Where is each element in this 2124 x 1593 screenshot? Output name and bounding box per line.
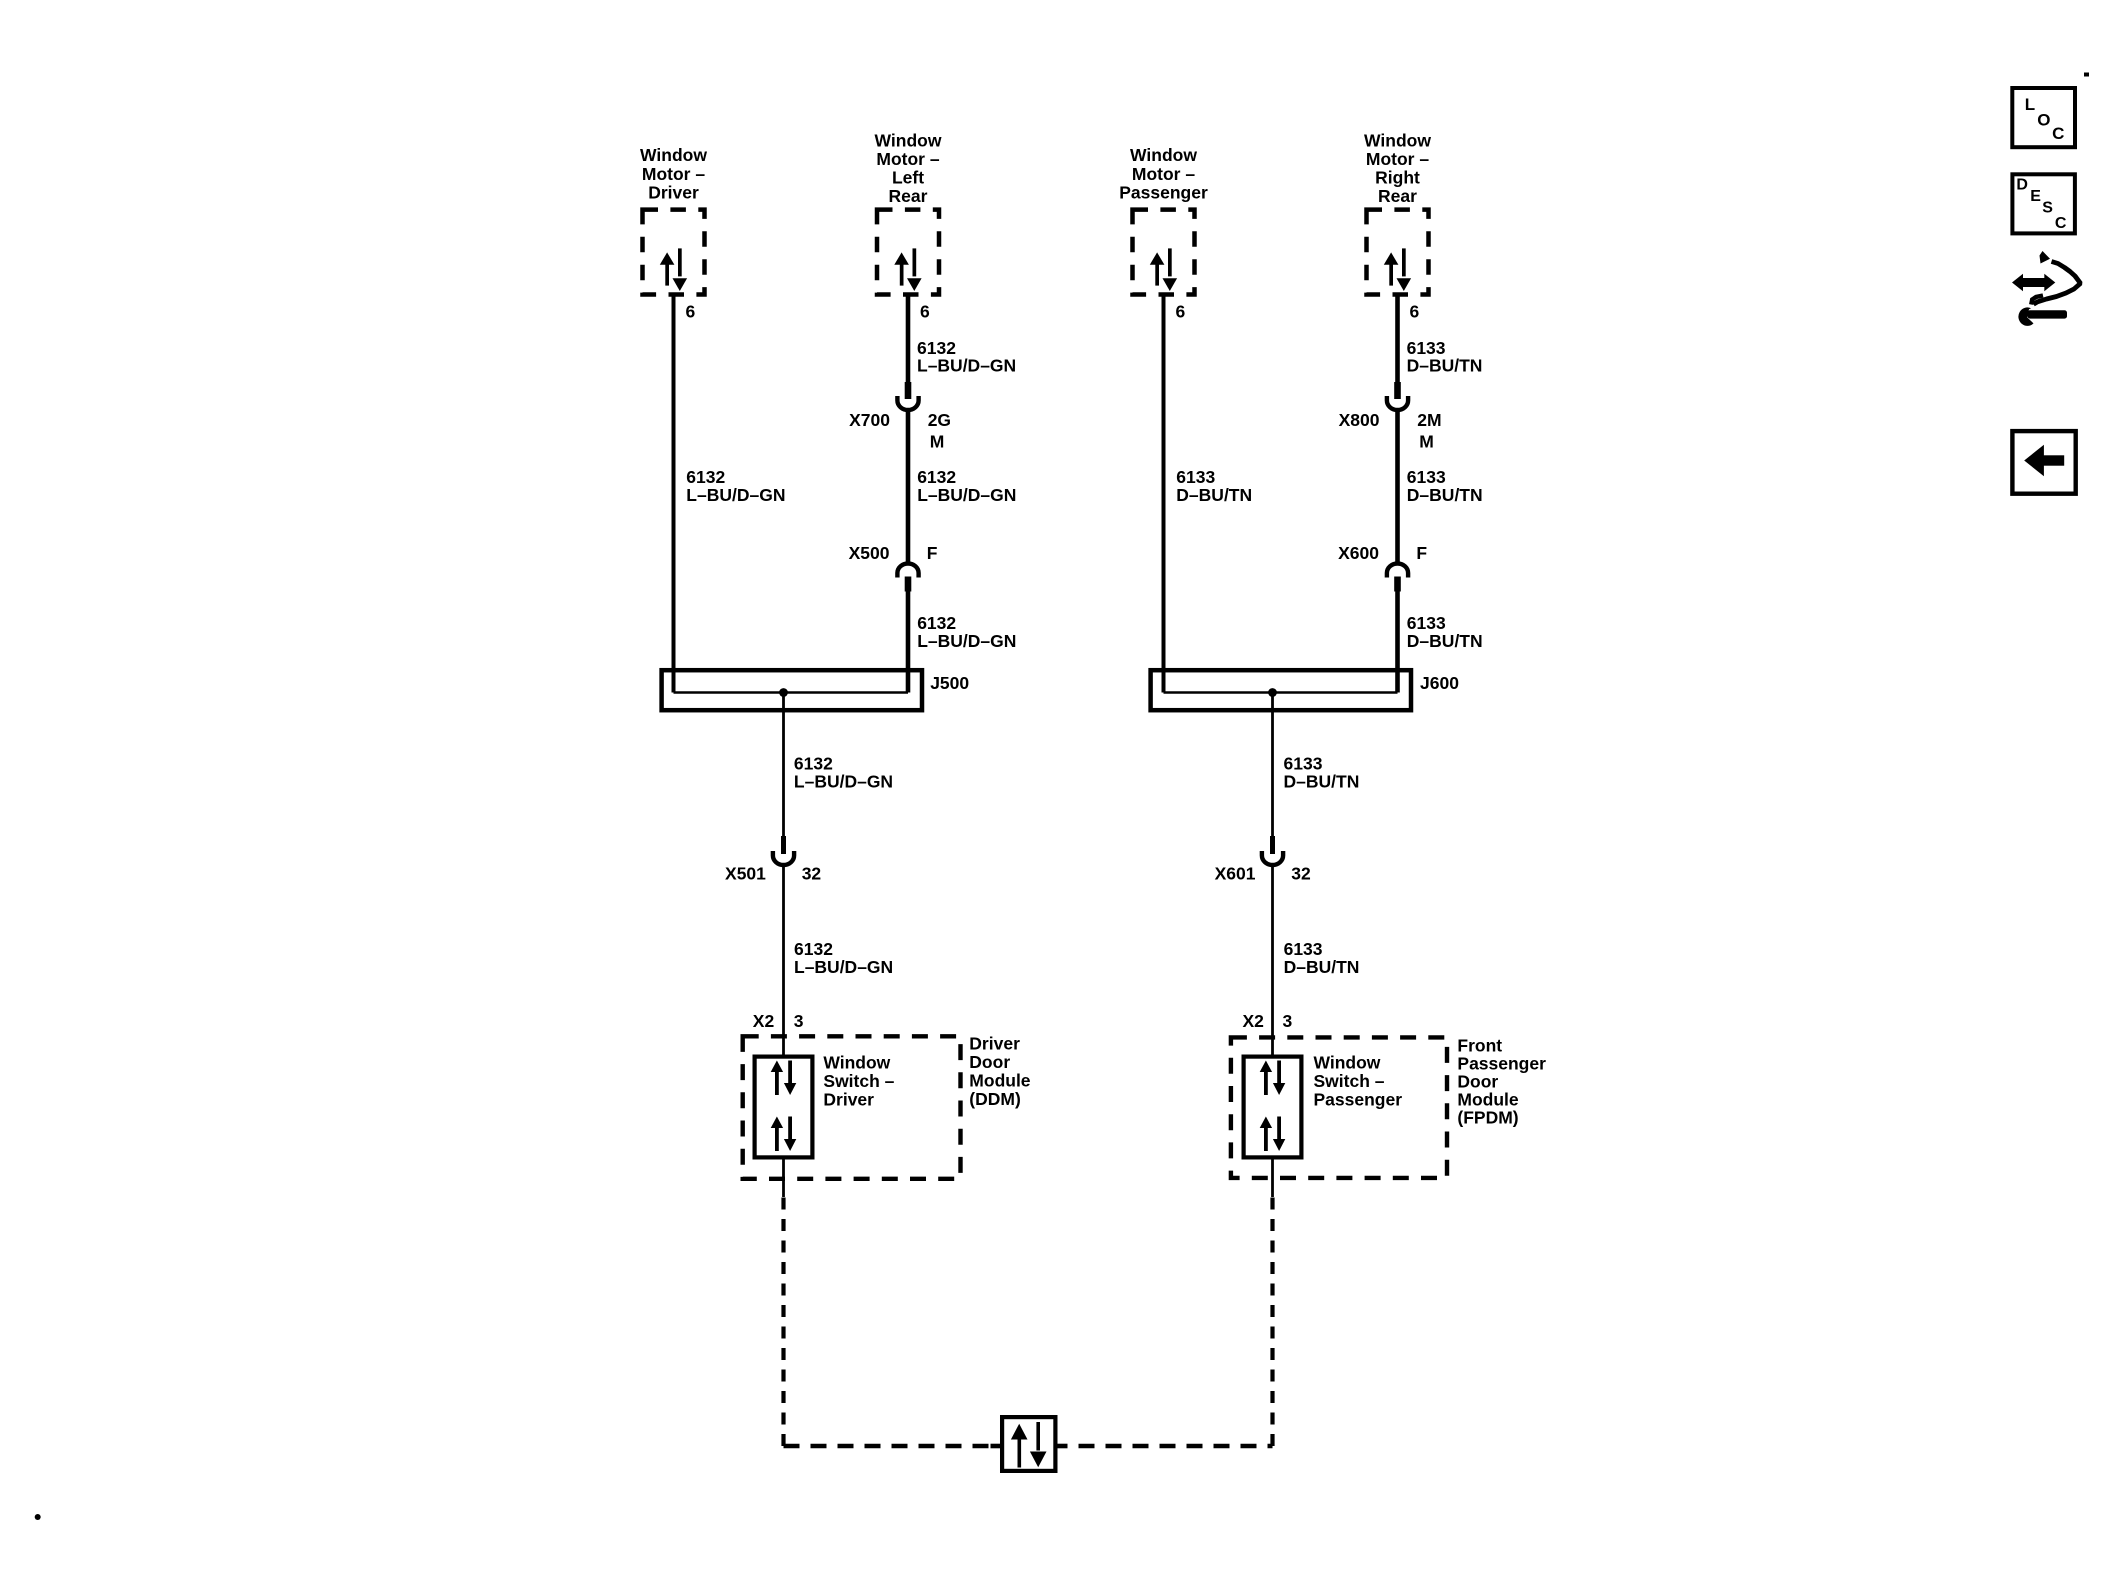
window motor right rear label [1364,131,1431,207]
FPDM label [1457,1036,1546,1128]
window motor right rear arrows [1384,248,1411,291]
wire X601 to switch [1271,865,1274,1055]
connector X601 cup [1262,851,1283,865]
window switch driver box [755,1057,813,1158]
wire passenger motor pin 6 [1162,295,1166,693]
connector X500 terminal [905,577,912,592]
wire J500 to X501 [782,693,785,838]
wire right rear motor pin 6 [1395,295,1400,384]
wire label 6133 below X601 [1284,939,1360,977]
svg-text:Rear: Rear [1378,186,1417,206]
DDM label [969,1034,1031,1110]
wire switch driver to dashed [782,1160,785,1198]
wire X600 to J600 [1395,591,1400,693]
svg-text:Driver: Driver [969,1034,1020,1054]
window switch driver label [823,1053,894,1110]
svg-text:D: D [2016,176,2028,193]
svg-text:Motor –: Motor – [1366,149,1429,169]
window switch passenger label [1314,1053,1403,1110]
connector X501 terminal [781,836,786,854]
LOC nav box [2012,88,2075,147]
svg-text:Passenger: Passenger [1119,182,1208,202]
splice pack J500 box [662,670,922,710]
svg-text:X501: X501 [725,864,766,884]
wire label 6132 mid [917,467,1016,505]
back arrow box [2012,431,2075,494]
window motor passenger arrows [1150,248,1177,291]
svg-text:X500: X500 [849,543,890,563]
svg-text:Window: Window [1130,145,1197,165]
wire label 6132 below J500 [794,754,893,792]
svg-text:X800: X800 [1339,410,1380,430]
svg-text:X600: X600 [1338,543,1379,563]
svg-text:L–BU/D–GN: L–BU/D–GN [917,356,1016,376]
svg-text:Passenger: Passenger [1314,1090,1403,1110]
scan artifact top right [2084,73,2089,77]
svg-text:X601: X601 [1215,864,1256,884]
dashed wire bottom left [784,1444,990,1449]
J500 internal bus [674,691,909,694]
svg-text:32: 32 [802,864,822,884]
svg-text:X700: X700 [849,410,890,430]
svg-text:L–BU/D–GN: L–BU/D–GN [917,631,1016,651]
svg-text:D–BU/TN: D–BU/TN [1407,631,1483,651]
svg-text:Passenger: Passenger [1457,1054,1546,1074]
diagram jump icon outline [2034,262,2081,305]
wire switch passenger to dashed [1271,1160,1274,1198]
svg-text:D–BU/TN: D–BU/TN [1284,771,1360,791]
wire driver motor pin 6 [672,295,676,693]
connector X800 terminal [1394,382,1401,399]
svg-text:Module: Module [969,1071,1031,1091]
svg-text:F: F [1416,543,1427,563]
window motor left rear arrows [894,248,921,291]
window motor passenger label [1119,145,1208,202]
svg-text:Motor –: Motor – [1132,164,1195,184]
svg-text:6: 6 [920,302,930,322]
window motor right rear box [1367,210,1429,295]
svg-text:D–BU/TN: D–BU/TN [1284,957,1360,977]
connector X600 cup [1387,564,1408,578]
back arrow [2024,445,2064,476]
svg-text:L–BU/D–GN: L–BU/D–GN [686,485,785,505]
svg-text:Door: Door [1457,1072,1498,1092]
wire X500 to J500 [906,591,911,693]
svg-text:L–BU/D–GN: L–BU/D–GN [917,485,1016,505]
svg-text:2G: 2G [928,410,951,430]
wire label 6132 above X700 [917,338,1016,376]
svg-text:(DDM): (DDM) [969,1089,1021,1109]
svg-text:Right: Right [1375,168,1420,188]
splice pack J600 box [1151,670,1411,710]
connector X800 cup [1387,396,1408,410]
wire X501 to switch [782,865,785,1055]
switch passenger arrows lower [1260,1117,1286,1152]
svg-text:Switch –: Switch – [823,1071,894,1091]
svg-text:M: M [930,432,945,452]
dashed wire passenger down [1270,1197,1274,1446]
switch passenger arrows upper [1260,1061,1286,1096]
svg-text:Window: Window [875,131,942,151]
svg-text:Motor –: Motor – [642,164,705,184]
svg-text:C: C [2055,215,2067,232]
svg-text:Window: Window [640,145,707,165]
svg-text:Module: Module [1457,1090,1519,1110]
svg-text:2M: 2M [1417,410,1441,430]
svg-text:Motor –: Motor – [876,149,939,169]
lockout switch arrows [1011,1422,1047,1468]
window motor driver box [643,210,705,295]
svg-text:S: S [2042,200,2053,217]
svg-text:32: 32 [1291,864,1311,884]
connector X501 cup [773,851,794,865]
svg-text:J500: J500 [930,673,969,693]
svg-text:F: F [927,543,938,563]
dashed wire bottom right [1057,1444,1068,1449]
svg-text:(FPDM): (FPDM) [1457,1108,1518,1128]
J500 junction dot [779,688,788,697]
window motor driver label [640,145,707,202]
wire label 6133 mid [1407,467,1483,505]
svg-text:L: L [2025,95,2035,114]
svg-text:J600: J600 [1420,673,1459,693]
switch driver arrows upper [771,1061,797,1096]
svg-text:L–BU/D–GN: L–BU/D–GN [794,957,893,977]
wire X700 to X500 [906,410,911,565]
svg-text:Driver: Driver [823,1090,874,1110]
svg-text:D–BU/TN: D–BU/TN [1407,485,1483,505]
svg-text:X2: X2 [1242,1011,1264,1031]
connector X700 cup [897,396,918,410]
wire label 6132 driver [686,467,785,505]
window motor driver arrows [660,248,687,291]
svg-text:Door: Door [969,1052,1010,1072]
svg-text:Window: Window [1364,131,1431,151]
wire label 6132 below X501 [794,939,893,977]
connector X601 terminal [1270,836,1275,854]
svg-text:M: M [1419,432,1434,452]
DDM dashed box [743,1036,961,1179]
J600 junction dot [1268,688,1277,697]
diagram jump icon outline arrowhead [2040,251,2051,264]
wire label 6133 above J600 [1407,613,1483,651]
dashed wire driver down [781,1197,785,1446]
window motor left rear box [877,210,939,295]
svg-text:Rear: Rear [889,186,928,206]
wire label 6133 passenger [1176,467,1252,505]
diagram jump icon wrench [2018,307,2067,325]
connector X500 cup [897,564,918,578]
svg-text:Driver: Driver [648,182,699,202]
wire X800 to X600 [1395,410,1400,565]
window lockout switch box [1002,1417,1055,1471]
svg-text:Left: Left [892,168,924,188]
DESC nav box [2012,174,2074,233]
connector X600 terminal [1394,577,1401,592]
connector X700 terminal [905,382,912,399]
svg-text:Window: Window [1314,1053,1381,1073]
svg-text:Front: Front [1457,1036,1502,1056]
svg-text:E: E [2030,188,2041,205]
svg-text:Switch –: Switch – [1314,1071,1385,1091]
svg-text:6: 6 [1410,302,1420,322]
svg-text:3: 3 [1283,1011,1293,1031]
svg-text:X2: X2 [753,1011,775,1031]
svg-text:O: O [2037,110,2050,129]
wire label 6133 above X800 [1407,338,1483,376]
diagram jump icon double arrow [2012,274,2055,292]
svg-text:6: 6 [686,302,696,322]
svg-text:L–BU/D–GN: L–BU/D–GN [794,771,893,791]
wire label 6133 below J600 [1284,754,1360,792]
J600 internal bus [1164,691,1398,694]
wire left rear motor pin 6 [906,295,911,384]
window switch passenger box [1244,1057,1302,1158]
svg-text:3: 3 [794,1011,804,1031]
svg-text:C: C [2052,124,2064,143]
window motor left rear label [875,131,942,207]
svg-text:D–BU/TN: D–BU/TN [1407,356,1483,376]
wire label 6132 above J500 [917,613,1016,651]
svg-text:6: 6 [1176,302,1186,322]
window motor passenger box [1133,210,1195,295]
wire J600 to X601 [1271,693,1274,838]
svg-text:D–BU/TN: D–BU/TN [1176,485,1252,505]
svg-text:Window: Window [823,1053,890,1073]
scan artifact bottom left [35,1514,41,1520]
switch driver arrows lower [771,1117,797,1152]
FPDM dashed box [1231,1037,1447,1178]
